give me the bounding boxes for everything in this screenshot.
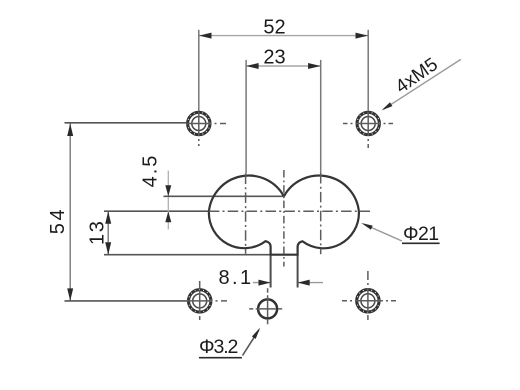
arrow dim-13 bottom <box>105 242 111 255</box>
svg-text:13: 13 <box>87 220 109 245</box>
wire dim-4.5 valley extension line <box>164 195 284 197</box>
arrow dim-52 left <box>199 33 212 39</box>
hole bottom-center crosshair horizontal <box>249 308 286 310</box>
hole bottom-center (Phi 3.2) circle <box>258 299 277 318</box>
hole top-left crosshair horizontal <box>186 123 226 125</box>
hole bottom-left crosshair vertical <box>199 281 201 320</box>
wire dim-13 dimension line <box>107 211 109 255</box>
wire dim-8.1 right dimension line <box>298 282 323 284</box>
wire dim-52 left extension line <box>198 30 200 112</box>
underline Phi3.2 <box>199 357 242 359</box>
leader Phi3.2 line <box>243 330 259 356</box>
arrow dim-23 right <box>308 63 321 69</box>
wire dim-8.1 left extension (slot side) <box>270 255 272 288</box>
svg-text:4.5: 4.5 <box>140 154 162 188</box>
underline Phi21 <box>402 242 440 244</box>
hole top-right inner circle <box>361 117 375 131</box>
hole bottom-center crosshair vertical <box>267 288 269 327</box>
arrow dim-54 bottom <box>67 288 73 301</box>
hole bottom-left crosshair horizontal <box>187 300 227 302</box>
arrow dim-52 right <box>356 33 369 39</box>
wire dim-54 dimension line <box>69 124 71 301</box>
leader Phi21 line <box>364 224 402 241</box>
hole bottom-left inner circle <box>193 294 207 308</box>
wire dim-4.5 dimension line <box>167 171 169 230</box>
leader 4xM5 line <box>384 59 461 109</box>
hole bottom-right inner circle <box>361 294 375 308</box>
arrow dim-8.1 left <box>259 280 271 286</box>
hole top-right crosshair horizontal <box>343 123 393 125</box>
hole top-left inner circle <box>192 117 206 131</box>
wire dim-52 dimension line <box>199 35 368 37</box>
centerline vertical right circle <box>320 173 322 254</box>
arrow Phi21 leader <box>361 223 372 230</box>
wire dim-13 top extension line <box>104 210 209 212</box>
hole top-left crosshair vertical <box>198 112 200 146</box>
wire dim-54 top extension line <box>65 122 188 124</box>
arrow dim-4.5 lower <box>165 211 171 222</box>
arrow 4xM5 leader <box>382 102 393 110</box>
hole bottom-right crosshair horizontal <box>342 300 396 302</box>
svg-text:52: 52 <box>263 17 285 39</box>
wire dim-54 bottom extension line <box>65 300 189 302</box>
wire dim-8.1 right extension (slot side) <box>297 255 299 288</box>
outline peanut cutout (2x Phi21 + slot) <box>209 176 359 255</box>
wire dim-13 bottom extension line <box>104 254 298 256</box>
hole bottom-left (M5) outer thread ring <box>189 290 211 312</box>
arrow Phi3.2 leader <box>252 328 260 339</box>
centerline horizontal through circles <box>209 210 370 212</box>
svg-text:8.1: 8.1 <box>218 267 253 289</box>
hole bottom-right crosshair vertical <box>367 271 369 320</box>
svg-text:Φ3.2: Φ3.2 <box>199 336 238 358</box>
arrow dim-4.5 upper <box>165 185 171 196</box>
arrow dim-23 left <box>246 63 259 69</box>
arrow dim-8.1 right <box>298 280 310 286</box>
wire dim-23 left extension line <box>245 60 247 174</box>
wire dim-23 right extension line <box>320 60 322 173</box>
centerline vertical left circle <box>245 174 247 254</box>
svg-text:54: 54 <box>47 207 69 234</box>
svg-text:23: 23 <box>263 47 285 69</box>
wire dim-52 right extension line <box>367 30 369 112</box>
hole top-right crosshair vertical <box>367 112 369 148</box>
wire dim-23 dimension line <box>246 65 321 67</box>
hole top-left (M5) outer thread ring <box>188 112 210 134</box>
hole top-right (M5) outer thread ring <box>357 112 379 134</box>
svg-text:Φ21: Φ21 <box>403 223 438 245</box>
hole bottom-right (M5) outer thread ring <box>357 290 379 312</box>
arrow dim-54 top <box>67 124 73 137</box>
centerline vertical slot axis <box>283 170 285 267</box>
wire dim-8.1 left dimension line <box>253 282 271 284</box>
arrow dim-13 top <box>105 211 111 224</box>
